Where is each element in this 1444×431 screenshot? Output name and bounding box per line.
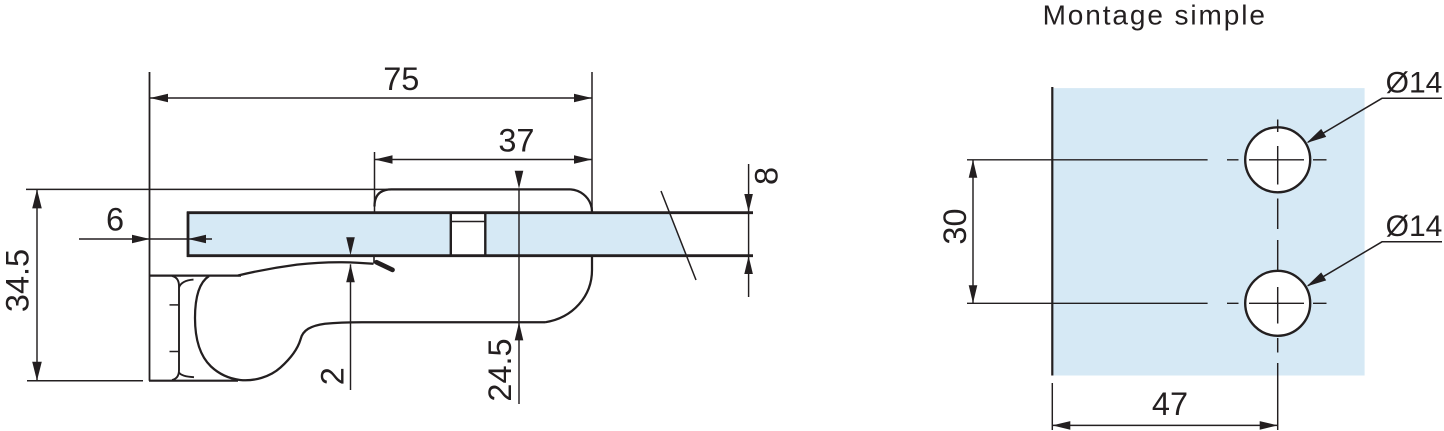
screw hole white window — [452, 214, 484, 255]
dim 37 line — [375, 159, 593, 161]
clamp body top edge — [392, 188, 571, 190]
wall plate top edge — [150, 274, 242, 276]
common vertical centerline — [1277, 120, 1279, 353]
svg-text:47: 47 — [1152, 386, 1188, 422]
clamp body bottom edge — [362, 321, 545, 323]
dim 30 bottom arrow — [969, 285, 978, 303]
dim 24.5 line — [518, 189, 520, 322]
glass top edge — [187, 211, 753, 214]
svg-text:8: 8 — [749, 167, 785, 185]
svg-text:Montage simple: Montage simple — [1043, 0, 1267, 31]
dim 6 arrow at glass edge — [188, 235, 206, 244]
svg-text:Ø14: Ø14 — [1386, 210, 1443, 243]
dim 34.5 bottom extension line — [27, 380, 143, 382]
dim 34.5 top extension line — [26, 188, 391, 190]
clamp body right edge below glass — [591, 257, 593, 271]
glass panel square — [1053, 88, 1365, 375]
svg-text:34.5: 34.5 — [0, 249, 36, 312]
dim 24.5 lower line — [518, 322, 520, 404]
dim 2 line — [350, 264, 352, 390]
svg-text:75: 75 — [383, 61, 419, 97]
dim 30 extension line bottom — [967, 302, 1208, 304]
svg-text:24.5: 24.5 — [482, 338, 518, 401]
dim 8 bottom arrow — [744, 256, 753, 274]
leader 1 arrow — [1307, 129, 1327, 143]
svg-text:37: 37 — [498, 123, 534, 159]
hole 2 horizontal centerline — [1227, 302, 1327, 304]
screw hole right edge — [484, 213, 486, 256]
clamp body bottom-right sweep corner — [545, 270, 592, 322]
glass panel fill — [188, 214, 686, 255]
svg-text:6: 6 — [106, 201, 124, 237]
dim 8 top arrow — [744, 194, 753, 212]
svg-text:30: 30 — [937, 208, 973, 244]
dim 75 right extension line — [591, 72, 593, 212]
dim 47 left extension line — [1051, 383, 1053, 430]
clamp body top-left corner — [375, 189, 392, 206]
leader 1 line — [1308, 98, 1442, 142]
dim 37 left extension line — [374, 152, 376, 213]
dim 24.5 top arrow — [515, 171, 524, 189]
dim 75 line — [150, 97, 593, 99]
swan-neck arm lower outline — [195, 276, 362, 380]
dim 34.5 line — [36, 189, 38, 380]
glass break line — [661, 191, 696, 280]
dim 47 left arrow — [1052, 421, 1070, 430]
hole 1 horizontal centerline — [1227, 159, 1327, 161]
dim 75 right arrow — [574, 94, 592, 103]
dim 8 line — [748, 164, 750, 297]
dim 24.5 bottom arrow — [515, 322, 524, 340]
glass bottom edge — [187, 254, 753, 257]
dim 75 left arrow — [150, 94, 168, 103]
dim 2 bottom arrow — [346, 264, 355, 282]
screw hole left edge — [450, 213, 452, 256]
dim 2 top arrow — [346, 237, 355, 255]
lower jaw left edge below glass — [373, 256, 375, 264]
wall plate tick mark lower — [170, 351, 180, 353]
leader 2 line — [1308, 242, 1442, 286]
dim 37 left arrow — [375, 155, 393, 164]
wall plate bottom edge — [149, 380, 238, 382]
dim 30 extension line top — [967, 159, 1208, 161]
hole 1 (top) — [1245, 127, 1310, 192]
dim 34.5 bottom arrow — [32, 362, 42, 381]
dim 6 arrow at plate — [132, 235, 150, 244]
wall plate inner disc edge with curved ends — [172, 276, 179, 380]
svg-text:2: 2 — [315, 367, 351, 385]
dim 47 right extension line — [1277, 363, 1279, 430]
dim 37 right arrow — [574, 155, 592, 164]
dim 30 line — [972, 160, 974, 303]
svg-text:Ø14: Ø14 — [1386, 67, 1443, 100]
swan-neck arm upper edge to lower jaw lip — [238, 262, 374, 275]
wall plate tick mark upper — [170, 304, 180, 306]
dim 34.5 top arrow — [32, 189, 42, 208]
hole 2 (bottom) — [1245, 271, 1310, 336]
wall back plate edge line (also 75/34.5 extension) — [149, 72, 151, 381]
glass left end edge — [187, 212, 190, 258]
dim 6 tail line — [188, 238, 212, 240]
leader 2 arrow — [1307, 272, 1327, 286]
wall plate disc face curve bottom-right — [179, 373, 194, 378]
clamp body top-right corner — [571, 189, 593, 211]
dim 47 right arrow — [1260, 421, 1278, 430]
dim 30 top arrow — [969, 160, 978, 178]
wall plate disc face curve top-right — [179, 280, 194, 288]
glass left edge line — [1051, 87, 1053, 376]
dim 47 line — [1052, 424, 1277, 426]
dim 6 line left — [79, 238, 188, 240]
gasket thick dash — [377, 262, 393, 270]
screw head line — [451, 221, 486, 223]
